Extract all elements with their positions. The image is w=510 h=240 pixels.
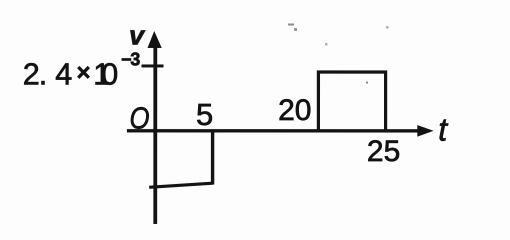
scan speck dot3 — [386, 26, 389, 29]
t-axis — [127, 129, 420, 133]
svg-text:25: 25 — [367, 135, 400, 168]
v-axis — [153, 44, 157, 224]
scan speck dot2 — [325, 43, 328, 46]
svg-text:10: 10 — [93, 58, 118, 92]
scan speck dot1 — [294, 28, 297, 31]
scan speck dot4 inside pulse — [366, 82, 368, 84]
svg-text:−3: −3 — [121, 49, 140, 69]
t-axis arrowhead — [417, 125, 433, 137]
positive pulse 20 to 25 — [318, 72, 385, 131]
svg-text:×: × — [77, 59, 91, 86]
svg-text:5: 5 — [196, 97, 213, 132]
scan speck dash — [288, 24, 294, 26]
svg-text:20: 20 — [278, 94, 311, 127]
v-axis arrowhead — [148, 31, 162, 48]
svg-text:v: v — [129, 20, 146, 50]
svg-text:t: t — [438, 112, 448, 148]
negative pulse right edge t=5 — [211, 130, 214, 185]
negative pulse bottom — [149, 183, 213, 187]
tick 2.4e-3 — [142, 64, 164, 67]
svg-text:O: O — [129, 100, 149, 135]
